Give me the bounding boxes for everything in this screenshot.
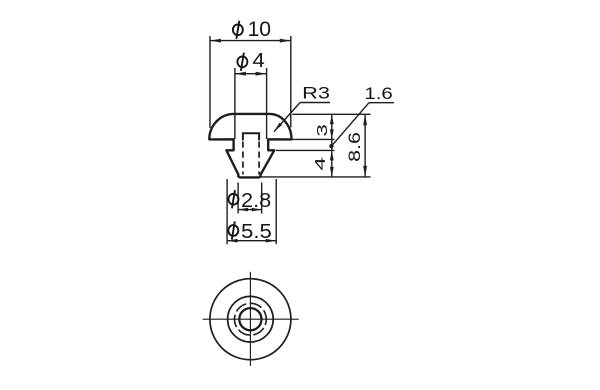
svg-text:1.6: 1.6 bbox=[364, 84, 392, 103]
svg-text:5.5: 5.5 bbox=[241, 220, 272, 243]
svg-text:4: 4 bbox=[312, 157, 329, 170]
svg-text:3: 3 bbox=[314, 124, 331, 137]
svg-text:4: 4 bbox=[252, 50, 264, 72]
svg-text:R3: R3 bbox=[302, 84, 330, 103]
svg-text:10: 10 bbox=[248, 17, 272, 41]
svg-text:8.6: 8.6 bbox=[345, 132, 364, 162]
svg-text:2.8: 2.8 bbox=[241, 189, 271, 212]
